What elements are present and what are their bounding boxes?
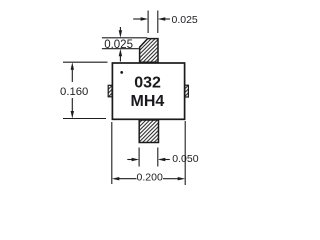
0.050 dim left witness line xyxy=(138,148,140,167)
0.160 dim bottom witness line xyxy=(63,118,106,120)
0.200 dim line with arrows xyxy=(112,177,185,180)
bottom lead tab (hatched) xyxy=(139,120,158,143)
0.200 dim right witness line xyxy=(184,121,186,185)
svg-text:0.025: 0.025 xyxy=(104,39,133,51)
0.050 dim right arrow xyxy=(158,158,170,161)
left dim 0.025 lower witness line xyxy=(102,48,139,50)
svg-text:0.025: 0.025 xyxy=(172,14,198,26)
top dim 0.025 left arrow xyxy=(133,17,148,20)
0.160 dim top witness line xyxy=(63,61,108,63)
pin-1 index dot xyxy=(120,71,123,74)
svg-text:MH4: MH4 xyxy=(131,93,165,110)
svg-text:0.200: 0.200 xyxy=(137,172,163,184)
package body outline xyxy=(112,63,184,119)
0.200 dim left witness line xyxy=(111,122,113,184)
top dim 0.025 right arrow xyxy=(158,17,170,20)
0.050 dim right witness line xyxy=(157,148,159,167)
top dim 0.025 witness line right xyxy=(157,11,159,34)
left side tab (hatched) xyxy=(108,85,112,97)
svg-text:0.050: 0.050 xyxy=(172,153,198,165)
top lead tab (hatched, chamfered top-left) xyxy=(140,39,158,63)
svg-text:0.160: 0.160 xyxy=(60,86,88,98)
0.050 dim left arrow xyxy=(127,158,139,161)
right side tab (hatched) xyxy=(185,85,189,97)
top dim 0.025 witness line left xyxy=(147,11,149,34)
left dim 0.025 upper witness line xyxy=(102,37,147,39)
left dim 0.025 lower arrow (points up) xyxy=(119,49,122,62)
0.160 dim line with arrows xyxy=(71,62,74,118)
left dim 0.025 upper arrow (points down) xyxy=(119,27,122,38)
svg-text:032: 032 xyxy=(134,74,161,91)
